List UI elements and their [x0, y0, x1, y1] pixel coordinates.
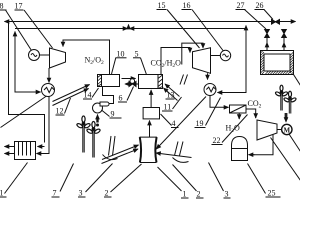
shaft turbine to generator	[211, 55, 221, 57]
wire left inner vertical with up arrow	[14, 32, 16, 37]
svg-text:10: 10	[117, 50, 125, 59]
leader 22	[222, 115, 248, 143]
label 27	[237, 1, 245, 10]
cooling tower 2	[140, 136, 157, 138]
arrow tower to box4	[149, 121, 151, 138]
leader 3	[86, 164, 113, 193]
cooler 19 circle	[204, 84, 216, 96]
label 10	[117, 50, 125, 59]
tank 25	[232, 137, 248, 161]
svg-text:16: 16	[183, 1, 191, 10]
wire top inner line B	[15, 28, 246, 30]
label 8	[0, 2, 4, 11]
spray bird left arrows into tower	[102, 145, 139, 160]
shaft motor to compressor 17	[40, 54, 50, 56]
svg-text:1: 1	[183, 190, 187, 199]
svg-text:19: 19	[196, 119, 204, 128]
label 1 bottom left	[0, 189, 4, 198]
label 2	[105, 189, 109, 198]
arrows 13 into right hatch	[165, 84, 180, 97]
wind turbine 20b	[283, 91, 296, 113]
pump feed pipe from box bottom	[103, 87, 114, 104]
leader 15	[167, 10, 200, 49]
condenser box 4	[143, 108, 159, 119]
wire arrow into membrane right port 1	[38, 146, 45, 148]
valve vertical hourglass 2	[282, 30, 287, 38]
label 4	[172, 119, 176, 128]
svg-text:8: 8	[0, 2, 4, 11]
pump 9 circle with nozzle	[93, 103, 103, 113]
up arrow at line B right end	[245, 26, 247, 29]
slash marks near 13	[180, 75, 188, 85]
diagonal from vessel corner	[294, 75, 301, 86]
steam pipe box5 top to turbine 15	[161, 48, 190, 75]
wire top line A left arrow	[5, 21, 13, 23]
svg-text:CO2: CO2	[248, 99, 262, 110]
svg-text:7: 7	[53, 189, 57, 198]
hatched vessel top right	[261, 51, 294, 75]
label 7	[53, 189, 57, 198]
valve 6 lower line with left arrow	[129, 83, 140, 85]
arrow box4 to box5	[150, 90, 152, 108]
label 9	[111, 110, 115, 119]
diagonal from M down-right	[289, 134, 301, 152]
vessel inlet stubs with up arrows	[266, 38, 268, 51]
leader 9	[102, 110, 110, 117]
svg-text:12: 12	[56, 107, 64, 116]
label 12	[56, 107, 64, 116]
svg-text:14: 14	[84, 91, 92, 100]
flue duct arrows to N2O2 hatch	[53, 85, 90, 102]
compressor 22 trapezoid	[257, 120, 277, 140]
wire arrow into cooler 8 left	[34, 91, 41, 93]
double down arrow wind to motor	[285, 113, 288, 120]
leader 8	[6, 10, 32, 51]
generator 16 circle with wave	[220, 50, 230, 60]
spray bird right: slashes	[175, 142, 184, 156]
leader 6	[127, 87, 134, 101]
svg-text:2: 2	[105, 189, 109, 198]
svg-text:4: 4	[172, 119, 176, 128]
svg-text:11: 11	[164, 103, 172, 112]
svg-text:3: 3	[225, 190, 229, 199]
pipe compressor 22 to tank	[253, 135, 274, 155]
wire left outer vertical	[9, 22, 45, 143]
cooler 19 drain diagonal into tower right	[156, 97, 206, 150]
leader 10	[112, 58, 116, 74]
label 5	[135, 50, 139, 59]
svg-text:26: 26	[256, 1, 264, 10]
label 3b	[225, 190, 229, 199]
label 6	[119, 94, 123, 103]
CO2/H2O box 5 with hatched right wall	[139, 75, 163, 89]
text N2/O2	[85, 56, 105, 67]
label 25	[268, 189, 276, 198]
leader 19	[206, 98, 221, 126]
spray bird right: arc	[173, 158, 189, 163]
leader 2	[111, 164, 142, 192]
leader 2b	[173, 165, 197, 192]
shaft compressor22 to M	[277, 129, 282, 131]
leader 11	[173, 97, 182, 109]
turbine exhaust down to cooler 19	[207, 73, 209, 79]
CO2 pipe to compressor 22	[246, 109, 256, 118]
turbine 15 trapezoid	[193, 48, 211, 74]
svg-text:5: 5	[135, 50, 139, 59]
svg-text:17: 17	[15, 2, 23, 11]
svg-text:2: 2	[197, 190, 201, 199]
spray bird left: slashes	[109, 136, 116, 156]
svg-text:13: 13	[167, 91, 175, 100]
label 19	[196, 119, 204, 128]
long diagonal D1	[271, 138, 301, 181]
valve 27 vertical hourglass	[265, 30, 270, 38]
leader 4	[161, 114, 172, 126]
label 11	[164, 103, 172, 112]
svg-text:M: M	[284, 127, 291, 135]
leader 3b	[209, 163, 224, 192]
svg-text:9: 9	[111, 110, 115, 119]
wire top outer line A	[9, 21, 288, 23]
svg-text:CO2/H2O: CO2/H2O	[151, 59, 182, 70]
label 1b	[183, 190, 187, 199]
wire compressor down to cooler	[48, 68, 50, 83]
junction arrows at line B x=128	[122, 28, 128, 30]
svg-text:N2/O2: N2/O2	[85, 56, 105, 67]
wind turbine 20a	[275, 85, 288, 110]
label 2b	[197, 190, 201, 199]
valve 6 bowtie and circle	[129, 82, 136, 87]
svg-text:1: 1	[0, 189, 4, 198]
label 13	[167, 91, 175, 100]
right return pipe from line B down to cooler 19	[221, 29, 247, 93]
N2/O2 box 10 with hatched left wall	[98, 75, 120, 87]
compressor 17 trapezoid	[50, 48, 66, 68]
label 3	[79, 189, 83, 198]
leader 16	[192, 10, 223, 51]
valve 26 bowtie on line A	[272, 20, 280, 25]
valve 6 between boxes: right arrow	[122, 78, 136, 80]
wire top line A right arrow	[288, 21, 296, 23]
label 14	[84, 91, 92, 100]
label 15	[158, 1, 166, 10]
leader 7	[60, 164, 74, 192]
wind turbine 7b	[86, 122, 101, 158]
svg-text:15: 15	[158, 1, 166, 10]
label 26	[256, 1, 264, 10]
membrane separator 1	[15, 142, 36, 160]
leader 26	[264, 10, 273, 20]
wind turbine 7a	[76, 116, 91, 153]
motor M circle	[282, 124, 292, 134]
leader 17	[24, 10, 53, 48]
svg-text:22: 22	[213, 136, 221, 145]
svg-text:3: 3	[79, 189, 83, 198]
leader 27	[245, 10, 267, 30]
spray bird right arrow	[156, 153, 192, 158]
wire cooler drain down to membrane	[37, 97, 50, 154]
text CO2	[248, 99, 262, 110]
label 17	[15, 2, 23, 11]
cooler 8 circle	[42, 84, 55, 97]
text H2O	[226, 124, 241, 135]
leader 14	[92, 88, 99, 98]
separator water down arrow	[238, 113, 240, 119]
svg-text:6: 6	[119, 94, 123, 103]
svg-text:25: 25	[268, 189, 276, 198]
spray bird left: arc	[103, 155, 118, 160]
label 22	[213, 136, 221, 145]
motor circle with wave (left)	[29, 50, 40, 61]
diagonal line off-canvas from cooler	[1, 96, 47, 128]
label 16	[183, 1, 191, 10]
separator box with diagonal	[230, 105, 247, 113]
svg-text:27: 27	[237, 1, 245, 10]
membrane left out arrows	[5, 146, 15, 148]
pump drop symbol below	[97, 115, 99, 119]
leader 12	[65, 98, 71, 114]
leader 25	[248, 164, 266, 194]
air pipe from N2O2 box top to compressor inlet	[63, 40, 110, 75]
leader 5	[141, 58, 147, 74]
text CO2/H2O	[151, 59, 182, 70]
cooler 19 to separator pipe	[210, 96, 225, 108]
leader 1b	[158, 167, 182, 191]
leader 1	[5, 163, 28, 194]
outer pipe to turbine	[182, 43, 203, 64]
